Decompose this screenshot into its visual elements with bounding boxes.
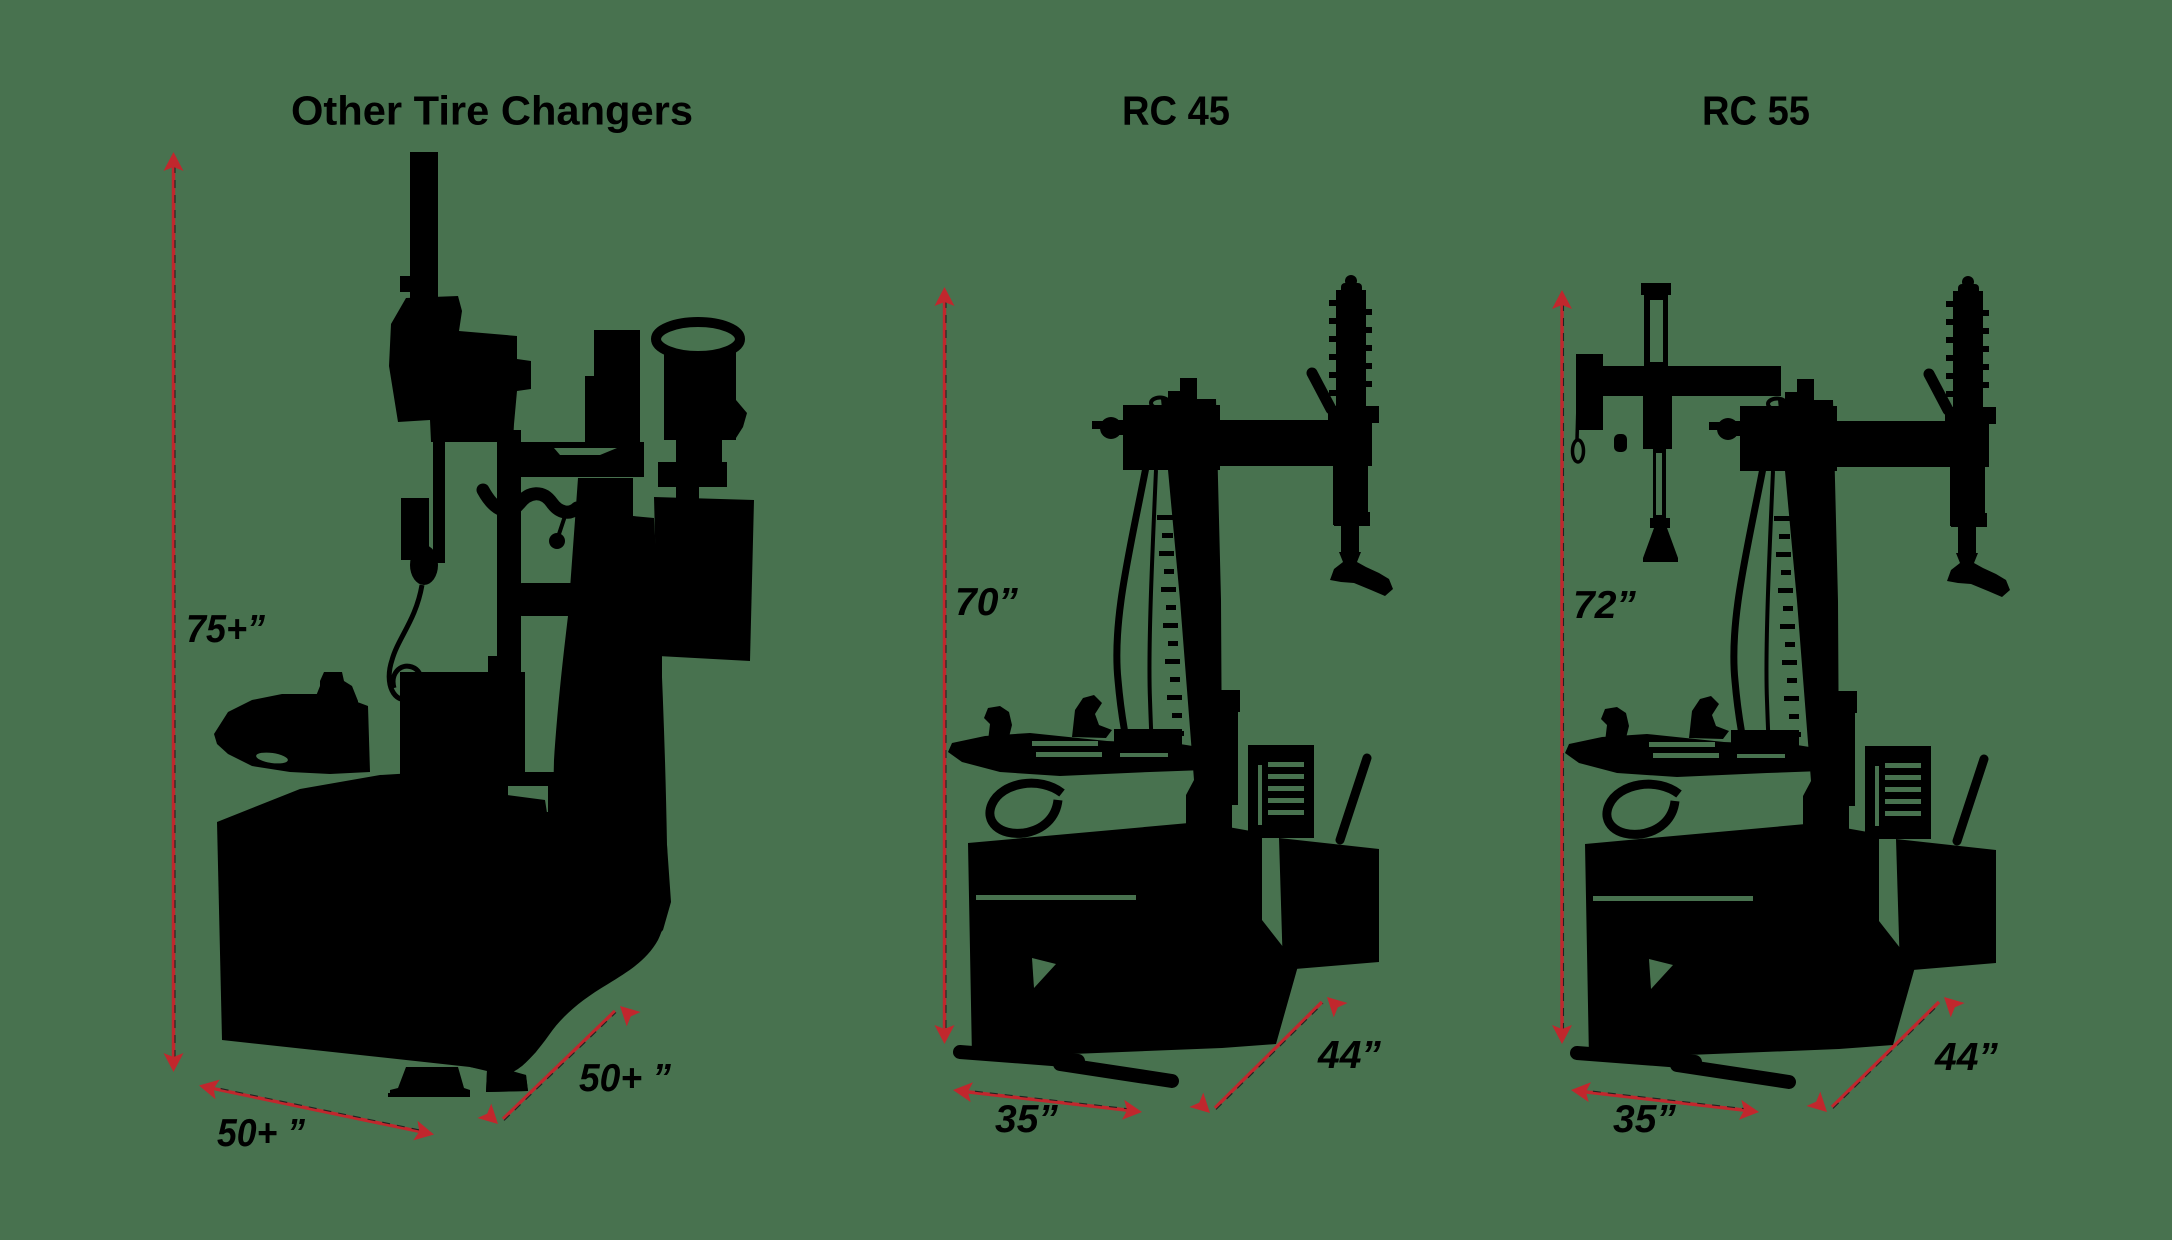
m1 horizontal arm — [497, 442, 644, 477]
m1 vertical hex rod below head — [433, 373, 445, 563]
m1 base mid fill — [470, 772, 560, 852]
svg-text:70”: 70” — [955, 581, 1018, 624]
svg-text:44”: 44” — [1934, 1036, 1998, 1079]
m1 handle link rod — [559, 513, 566, 534]
m1 pear knob — [410, 545, 438, 585]
svg-text:RC 55: RC 55 — [1702, 88, 1810, 134]
m1 spring section — [401, 498, 429, 560]
helper arm left hook loop — [1573, 440, 1584, 462]
helper arm lower bracket — [1643, 396, 1672, 449]
m1 tray rim notch — [255, 751, 288, 765]
m1 cylinder body — [664, 352, 736, 440]
helper arm left plate — [1576, 354, 1603, 430]
RC 55 helper arm assembly — [1573, 283, 1782, 562]
m1 cylinder beak — [736, 400, 747, 438]
svg-text:50+ ”: 50+ ” — [217, 1112, 305, 1155]
machine 2: RC 45 — [948, 275, 1393, 1081]
helper arm rod collar — [1650, 518, 1670, 528]
m1 tilt tower and swoosh — [470, 478, 668, 1092]
dimension arrow: RC 55 width 35" — [1570, 1080, 1760, 1122]
m1 pedestal foot — [390, 1067, 470, 1095]
m1 pedestal base line — [388, 1093, 470, 1097]
dimension arrow: RC 45 width 35" — [952, 1080, 1143, 1122]
svg-text:72”: 72” — [1573, 584, 1636, 627]
m1 wavy handle — [483, 490, 577, 512]
m1 cylinder mount — [658, 462, 727, 487]
m1 cylinder neck — [676, 440, 722, 464]
m1 plate lower bump — [631, 652, 662, 686]
svg-text:RC 45: RC 45 — [1122, 88, 1230, 134]
svg-text:Other Tire Changers: Other Tire Changers — [291, 88, 693, 134]
dimension arrow: RC 45 depth 44" — [1189, 990, 1347, 1120]
dimension arrow: machine 1 width 50+" (bottom left) — [197, 1076, 436, 1145]
m1 handle ball — [549, 533, 565, 549]
m1 base right mass with swoosh — [470, 790, 671, 1092]
svg-text:35”: 35” — [995, 1098, 1058, 1141]
svg-text:44”: 44” — [1317, 1034, 1381, 1077]
m1 bottle — [314, 672, 358, 772]
helper arm press rod — [1653, 449, 1666, 521]
helper arm post cap — [1641, 283, 1671, 295]
dimension arrow: RC 55 depth 44" — [1806, 990, 1964, 1119]
m1 base cabinet front — [217, 772, 470, 1067]
m1 mid tower block lower — [585, 376, 640, 442]
helper arm horizontal beam — [1584, 366, 1781, 396]
m1 arm top sliver — [554, 448, 617, 455]
svg-text:75+”: 75+” — [186, 608, 265, 651]
helper arm post — [1644, 285, 1668, 396]
svg-text:35”: 35” — [1613, 1098, 1676, 1141]
helper arm press bell — [1643, 528, 1678, 562]
helper arm rod hollow — [1656, 453, 1662, 515]
helper arm left hook line — [1577, 404, 1578, 440]
m1 ring handle — [656, 322, 740, 356]
m1 saddle — [522, 583, 572, 616]
m1 mid tower block upper — [594, 330, 640, 378]
m1 shelf knob — [493, 659, 507, 673]
m1 threaded rod — [410, 152, 438, 304]
machine 1: Other Tire Changer silhouette — [214, 152, 754, 1097]
dimension arrow: RC 55 height 72" — [1552, 290, 1572, 1044]
helper arm top step — [1579, 354, 1602, 368]
m1 cable squiggle — [389, 585, 422, 700]
dimension arrow: machine 1 height 75+" — [164, 152, 184, 1072]
machine 3: RC 55 (shifted copy) — [1565, 276, 2010, 1082]
m1 oil tray — [214, 694, 370, 774]
m1 rod side nub — [400, 276, 411, 292]
m1 mount tab — [676, 485, 699, 500]
helper arm knob bump — [1614, 434, 1627, 452]
helper arm post hollow — [1650, 300, 1663, 362]
m1 zigzag notch — [571, 866, 610, 883]
m1 swing-arm head assembly — [389, 296, 531, 442]
dimension arrow: RC 45 height 70" — [935, 287, 955, 1044]
m1 base mid notch — [508, 786, 548, 812]
m1 shelf box — [400, 672, 525, 782]
m1 narrow column post — [497, 430, 521, 676]
svg-text:50+ ”: 50+ ” — [579, 1057, 671, 1100]
m1 big protection plate — [654, 497, 754, 661]
dimension arrow: machine 1 depth 50+" (right diagonal) — [477, 999, 640, 1131]
